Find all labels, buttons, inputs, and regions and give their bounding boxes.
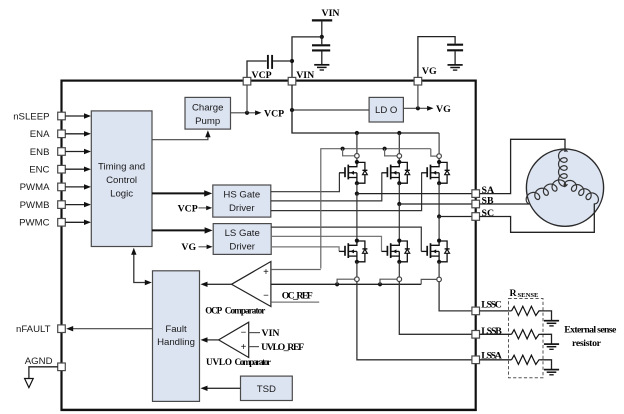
sense ring LS2 bbox=[397, 277, 402, 282]
wire SA line bbox=[357, 193, 472, 195]
wire OCP plus input bbox=[271, 269, 321, 271]
motor winding junction bbox=[564, 184, 567, 187]
svg-text:VCP: VCP bbox=[264, 108, 284, 119]
svg-text:OCP: OCP bbox=[205, 305, 222, 315]
wire HS source to SB bbox=[398, 183, 400, 204]
svg-text:Driver: Driver bbox=[229, 203, 255, 214]
wire to LS ring3 bbox=[421, 279, 436, 284]
arrow VG output bbox=[427, 106, 433, 111]
transistor LS FET Q1L bbox=[339, 239, 367, 264]
wire HS source to SC bbox=[438, 183, 440, 216]
pin SB bbox=[472, 200, 480, 208]
wire SC line bbox=[439, 216, 472, 218]
capacitor C-VIN bbox=[321, 37, 323, 44]
wire SC to LS drain bbox=[438, 217, 440, 241]
node SA junction bbox=[355, 192, 359, 196]
svg-text:Comparator: Comparator bbox=[225, 305, 265, 315]
motor winding C (right) bbox=[564, 180, 598, 203]
wire PWMC to logic bbox=[65, 221, 84, 223]
wire LS gate drive C bbox=[271, 227, 421, 251]
ground (LSSB) bbox=[544, 344, 559, 349]
motor winding B (left) bbox=[526, 180, 565, 204]
ground (LSSA) bbox=[544, 370, 559, 375]
wire ring to HS FET SC bbox=[438, 158, 440, 162]
arrow OCP to fault bbox=[207, 283, 232, 285]
wire rail to col1 sense ring bbox=[356, 133, 358, 154]
pin LSSA bbox=[472, 356, 480, 364]
block HS Gate Driver bbox=[213, 185, 271, 217]
wire VIN to LDO bbox=[292, 109, 369, 111]
capacitor C-VCP bbox=[267, 55, 269, 69]
wire C-VCP to VIN junction bbox=[273, 60, 292, 62]
node rail col1 bbox=[355, 131, 359, 135]
svg-text:−: − bbox=[241, 327, 247, 338]
wire ENA to logic bbox=[65, 133, 84, 135]
arrow UVLO to fault bbox=[207, 339, 219, 341]
svg-text:+: + bbox=[263, 267, 269, 278]
wire SA to LS drain bbox=[356, 194, 358, 241]
svg-text:nFAULT: nFAULT bbox=[16, 324, 51, 335]
wire logic-fault link bbox=[134, 250, 146, 283]
svg-text:SB: SB bbox=[482, 195, 494, 206]
wire sense to ring3 bbox=[431, 149, 437, 156]
block Charge Pump bbox=[185, 97, 231, 129]
wire to LS ring2 bbox=[380, 279, 397, 284]
svg-text:AGND: AGND bbox=[25, 356, 53, 367]
Rsense dashed box bbox=[509, 299, 544, 378]
wire SB to motor bbox=[480, 203, 531, 205]
svg-text:HS Gate: HS Gate bbox=[223, 190, 260, 201]
wire LSSA to resistor bbox=[480, 359, 512, 361]
wire SA to motor bbox=[480, 139, 566, 193]
wire LS gate drive B bbox=[271, 236, 381, 251]
resistor R LSSC bbox=[512, 306, 541, 315]
arrow logic to LS driver bbox=[152, 229, 205, 231]
ground (LSSC) bbox=[544, 321, 559, 326]
motor body bbox=[526, 149, 603, 226]
wire VG pin down bbox=[417, 85, 419, 108]
pin LSSB bbox=[472, 331, 480, 339]
transistor HS FET Q3H bbox=[421, 160, 449, 185]
pin SA bbox=[472, 190, 480, 198]
transistor HS FET Q2H bbox=[382, 160, 410, 185]
svg-text:VCP: VCP bbox=[178, 203, 198, 214]
svg-text:PWMC: PWMC bbox=[19, 218, 49, 229]
wire ENC to logic bbox=[65, 168, 84, 170]
svg-text:Timing and: Timing and bbox=[98, 162, 145, 173]
wire HS gate drive B bbox=[271, 173, 382, 201]
wire charge pump output bbox=[231, 112, 256, 114]
svg-text:Pump: Pump bbox=[195, 116, 220, 127]
node sense HS col1 bbox=[341, 147, 345, 151]
node sense HS col2 bbox=[383, 147, 387, 151]
resistor R LSSA bbox=[512, 355, 541, 364]
wire HS source to SA bbox=[356, 183, 358, 193]
wire OCP sense vertical bbox=[321, 149, 431, 269]
sense ring HS1 bbox=[355, 154, 360, 159]
node SC junction bbox=[437, 214, 441, 218]
wire VIN stub bbox=[249, 332, 260, 334]
wire LS source to ring bbox=[398, 262, 400, 277]
svg-text:TSD: TSD bbox=[257, 384, 276, 395]
sense ring HS2 bbox=[397, 154, 402, 159]
analog ground arrow bbox=[25, 379, 34, 388]
wire LS source to ring bbox=[438, 262, 440, 277]
svg-text:VIN: VIN bbox=[296, 70, 314, 81]
svg-text:UVLO: UVLO bbox=[206, 357, 232, 367]
VIN supply bar bbox=[312, 19, 332, 21]
block LS Gate Driver bbox=[213, 224, 271, 255]
wire LSSB bbox=[399, 282, 472, 335]
node LDO input junction bbox=[290, 108, 294, 112]
svg-text:SA: SA bbox=[482, 185, 495, 196]
svg-text:LSSB: LSSB bbox=[481, 326, 502, 337]
arrow fault to nFAULT bbox=[73, 328, 153, 330]
arrow TSD to fault bbox=[207, 387, 241, 389]
wire LS gate drive A bbox=[271, 247, 339, 252]
svg-text:Driver: Driver bbox=[229, 241, 255, 252]
wire resistor to ground bbox=[541, 311, 552, 321]
svg-text:Fault: Fault bbox=[165, 324, 187, 335]
wire VIN bar to junction bbox=[321, 21, 323, 37]
pin VCP bbox=[243, 77, 251, 85]
wire LS source to ring bbox=[356, 262, 358, 277]
wire VCP pin down bbox=[246, 85, 248, 113]
svg-text:−: − bbox=[263, 291, 269, 302]
svg-text:+: + bbox=[241, 342, 247, 353]
wire logic to charge pump bbox=[152, 137, 208, 140]
wire PWMB to logic bbox=[65, 204, 84, 206]
wire LSSC bbox=[439, 282, 472, 311]
wire UVLO_REF stub bbox=[249, 346, 259, 348]
sense ring LS1 bbox=[355, 277, 360, 282]
pin VG bbox=[414, 77, 422, 85]
node LS sense col2 bbox=[378, 282, 382, 286]
capacitor C-VCP wire bbox=[247, 61, 267, 78]
motor winding A (top) bbox=[559, 150, 568, 187]
svg-text:Charge: Charge bbox=[192, 103, 223, 114]
wire VG pin to cap bbox=[418, 37, 455, 78]
node VCP-cap junction on VIN wire bbox=[290, 59, 294, 63]
pin VIN bbox=[288, 77, 296, 85]
wire resistor to ground bbox=[541, 360, 552, 370]
block Timing and Control Logic bbox=[91, 111, 152, 247]
svg-text:LD O: LD O bbox=[375, 105, 397, 116]
sense ring LS3 bbox=[437, 277, 442, 282]
svg-text:External sense: External sense bbox=[564, 325, 617, 336]
svg-text:Control: Control bbox=[106, 175, 137, 186]
svg-text:R: R bbox=[510, 288, 518, 299]
svg-text:Handling: Handling bbox=[157, 337, 195, 348]
block LDO bbox=[369, 97, 403, 122]
resistor R LSSB bbox=[512, 330, 541, 339]
wire OCP sense low-side bbox=[271, 283, 421, 285]
block TSD bbox=[241, 376, 293, 400]
wire LDO output bbox=[403, 107, 427, 109]
node VG output junction bbox=[416, 106, 420, 110]
node VCP output junction bbox=[245, 111, 249, 115]
svg-text:ENC: ENC bbox=[29, 165, 49, 176]
svg-text:VIN: VIN bbox=[322, 8, 340, 19]
pin LSSC bbox=[472, 307, 480, 315]
svg-text:VG: VG bbox=[181, 242, 196, 253]
wire SB line bbox=[399, 203, 472, 205]
svg-text:VCP: VCP bbox=[252, 70, 272, 81]
sense ring HS3 bbox=[437, 154, 442, 159]
wire OC_REF stub bbox=[271, 301, 319, 303]
svg-text:VIN: VIN bbox=[262, 328, 280, 339]
block Fault Handling bbox=[153, 271, 200, 402]
svg-text:LSSC: LSSC bbox=[481, 300, 502, 311]
wire junction to VIN pin bbox=[292, 37, 322, 78]
wire to LS ring1 bbox=[337, 279, 354, 284]
wire VIN rail bbox=[292, 85, 439, 133]
transistor LS FET Q3L bbox=[421, 239, 449, 264]
svg-text:Logic: Logic bbox=[110, 189, 133, 200]
wire SB to LS drain bbox=[398, 204, 400, 241]
wire sense to ring1 bbox=[343, 149, 355, 156]
node SB junction bbox=[397, 202, 401, 206]
svg-text:LS Gate: LS Gate bbox=[225, 228, 260, 239]
op-amp OCP comparator bbox=[232, 262, 271, 307]
wire LSSA bbox=[357, 282, 472, 360]
svg-text:PWMB: PWMB bbox=[20, 200, 50, 211]
svg-text:nSLEEP: nSLEEP bbox=[13, 111, 49, 122]
svg-text:VG: VG bbox=[436, 104, 451, 115]
wire PWMA to logic bbox=[65, 186, 84, 188]
svg-text:SENSE: SENSE bbox=[518, 292, 539, 299]
node LS sense col1 bbox=[335, 282, 339, 286]
transistor LS FET Q2L bbox=[382, 239, 410, 264]
pin SC bbox=[472, 213, 480, 221]
arrow VCP output bbox=[255, 110, 261, 115]
wire HS gate drive C bbox=[271, 173, 422, 211]
wire nSLEEP to logic bbox=[65, 115, 84, 117]
svg-text:ENA: ENA bbox=[30, 129, 50, 140]
op-amp UVLO comparator bbox=[219, 322, 249, 357]
wire ENB to logic bbox=[65, 151, 84, 153]
wire ring to HS FET SA bbox=[356, 158, 358, 162]
wire resistor to ground bbox=[541, 334, 552, 344]
wire ring to HS FET SB bbox=[398, 158, 400, 162]
wire sense to ring2 bbox=[385, 149, 397, 156]
node rail col2 bbox=[397, 131, 401, 135]
capacitor C-VG bbox=[447, 44, 463, 46]
wire rail to col2 sense ring bbox=[398, 133, 400, 154]
svg-text:Comparator: Comparator bbox=[235, 357, 272, 367]
svg-text:UVLO_REF: UVLO_REF bbox=[261, 342, 304, 353]
wire LSSB to resistor bbox=[480, 333, 512, 335]
transistor HS FET Q1H bbox=[339, 160, 367, 185]
wire rail to col3 sense ring bbox=[438, 133, 440, 154]
arrow logic to HS driver bbox=[152, 192, 205, 194]
IC block boundary bbox=[62, 81, 476, 410]
wire SC to motor bbox=[480, 204, 595, 233]
wire HS gate drive A bbox=[271, 173, 340, 192]
svg-text:PWMA: PWMA bbox=[20, 182, 50, 193]
node VIN top junction bbox=[320, 35, 324, 39]
ground (VIN cap) bbox=[314, 65, 329, 70]
svg-text:OC_REF: OC_REF bbox=[282, 290, 313, 301]
svg-text:SC: SC bbox=[482, 208, 495, 219]
ground (VG cap) bbox=[448, 65, 463, 70]
svg-text:VG: VG bbox=[422, 66, 437, 77]
svg-text:resistor: resistor bbox=[572, 338, 602, 349]
wire AGND bbox=[29, 367, 58, 379]
wire LSSC to resistor bbox=[480, 310, 512, 312]
svg-text:ENB: ENB bbox=[30, 147, 50, 158]
